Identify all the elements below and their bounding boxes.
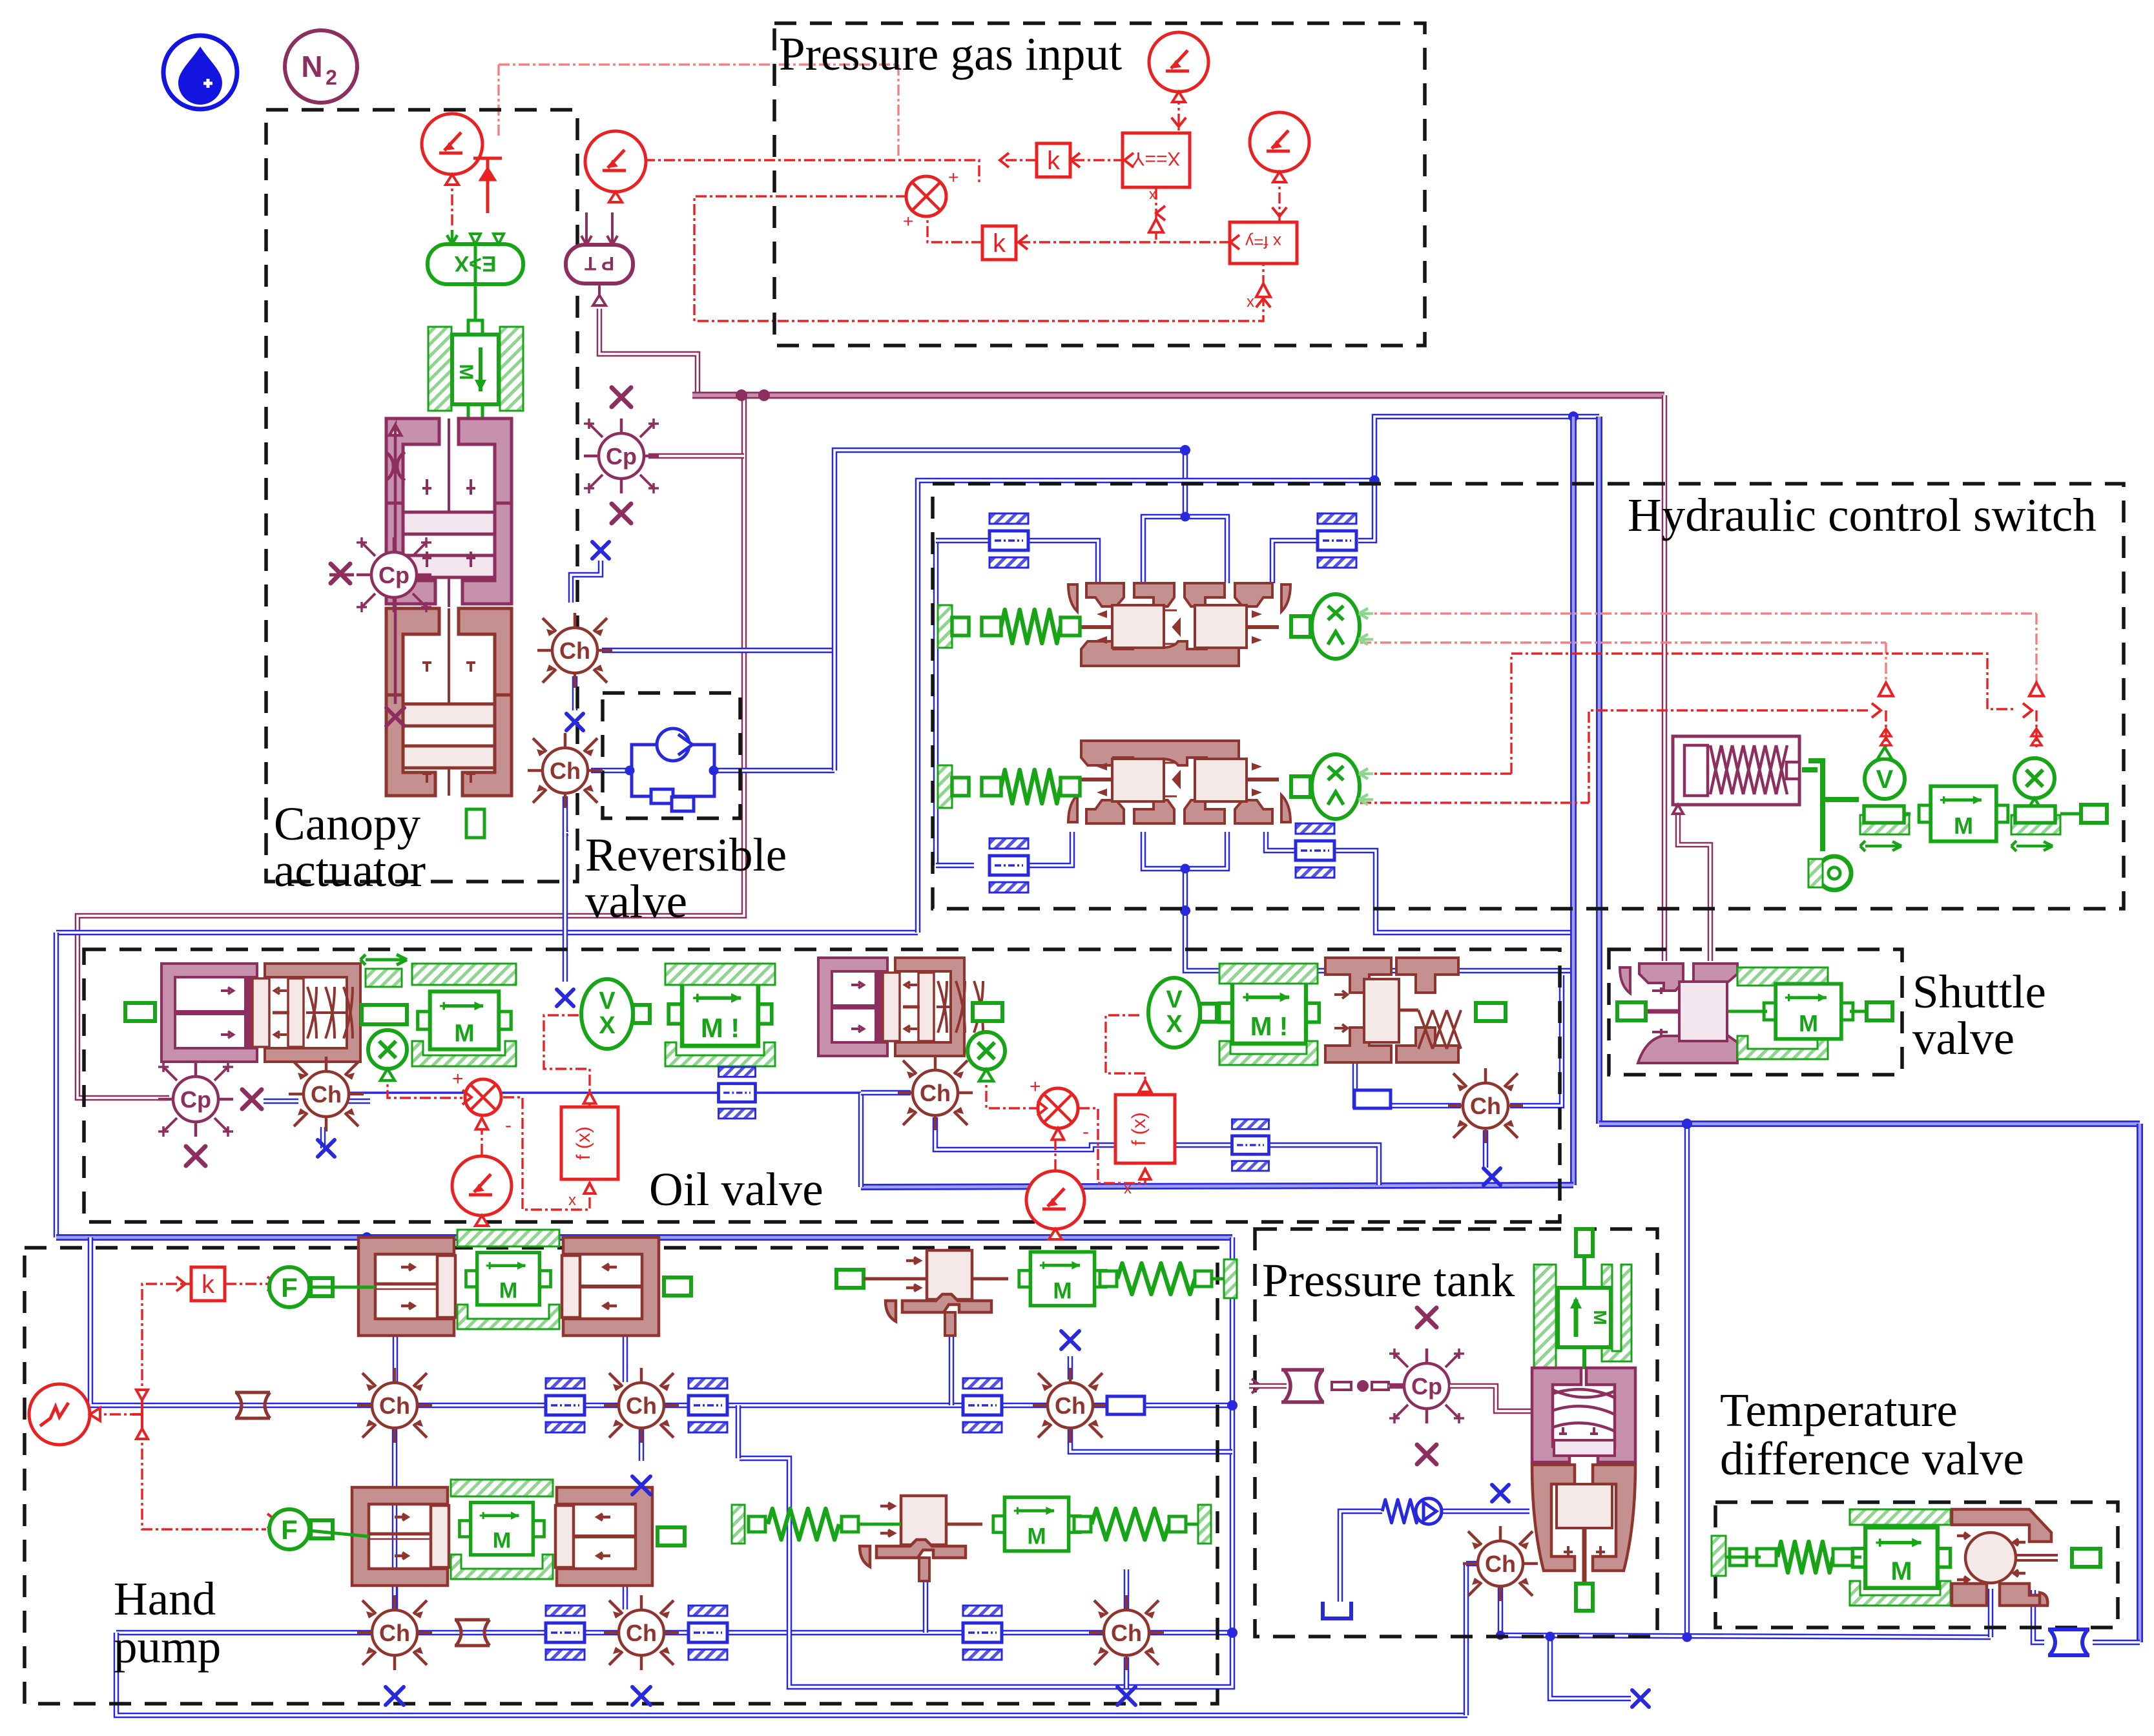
svg-text:V: V [1166, 986, 1183, 1013]
pump row2 Ch node A [357, 1595, 432, 1670]
HCS orifice top-right [1318, 513, 1356, 568]
HCS inner-left loop [933, 541, 939, 865]
oil valve mass M2b [1219, 982, 1320, 1044]
canopy Cp node (left) [357, 537, 431, 612]
svg-text:valve: valve [1912, 1012, 2014, 1064]
pump2 left chamber drop [393, 1586, 399, 1609]
pump1 left chamber drop [393, 1336, 399, 1382]
link to HCS orifice L2 [936, 863, 974, 869]
M1 bottom guide [412, 1041, 516, 1066]
canopy Ch2 drop [563, 833, 568, 982]
function box to VX1 pilot [544, 1015, 590, 1106]
canopy Ch node (lower oil) [528, 733, 603, 808]
svg-text:Ch: Ch [1111, 1620, 1142, 1646]
temp valve center port drop [1988, 1589, 1994, 1637]
svg-text:x f=y: x f=y [1245, 232, 1281, 252]
temp valve right port to bowtie [2033, 1590, 2044, 1642]
temp valve bottom guide [1850, 1581, 1951, 1606]
relief valve 1 center drop [949, 1336, 955, 1405]
svg-text:V: V [599, 987, 616, 1015]
svg-text:-: - [1082, 1121, 1089, 1142]
bowtie to far right trunk [2093, 1640, 2140, 1646]
oil valve X transducer 1 [368, 1030, 407, 1080]
oil valve Ch node 3 [1448, 1068, 1523, 1143]
svg-text:Temperature: Temperature [1720, 1384, 1958, 1436]
signal from canopy k2 to mixer [644, 160, 979, 185]
canopy actuator cylinder (gas side) [386, 418, 512, 607]
oil valve pilot cylinder 1 [161, 964, 360, 1062]
svg-text:+: + [948, 167, 958, 187]
link to HCS orifice L1 [936, 538, 989, 544]
hand pump cylinder 2 [352, 1487, 652, 1586]
svg-text:Cp: Cp [378, 562, 409, 588]
HCS bottom fork to right trunk [1143, 832, 1573, 971]
HCS orifice R1 to spool 1 [1272, 541, 1318, 583]
row1 Ch2 down stub [639, 1429, 645, 1461]
relief Ch to riser [1070, 1429, 1232, 1452]
gas input constant k (top) [1149, 32, 1208, 102]
pilot relief valve 2 mass M [993, 1497, 1080, 1551]
green link [588, 1013, 620, 1016]
oil valve orifice (middle line) [1232, 1119, 1269, 1171]
svg-text:Ch: Ch [626, 1620, 657, 1646]
dashed box: Hydraulic control switch [933, 484, 2124, 909]
temp valve mass M [1852, 1527, 1950, 1588]
tank bottom collector line [1500, 1635, 1991, 1637]
svg-text:M: M [1053, 1278, 1072, 1303]
pneumatic bowtie restrictor tank [1281, 1370, 1324, 1402]
svg-text:-: - [505, 1115, 512, 1136]
svg-text:x: x [1149, 188, 1156, 204]
trunk along y1740 to far right [1599, 1121, 2140, 1127]
oil valve Ch1 right link [347, 1099, 370, 1104]
hand pump gain k [191, 1267, 225, 1301]
pump1 force transducer F [269, 1267, 333, 1307]
oil valve Cp node [158, 1062, 233, 1137]
pump row1 orifice B [689, 1378, 727, 1432]
return line right section [861, 1185, 1573, 1187]
pump row2 orifice A [546, 1606, 585, 1660]
canopy Cp node (gas) [584, 418, 659, 493]
canopy M block with guides [428, 327, 451, 411]
svg-text:Ch: Ch [379, 1392, 410, 1419]
k1 circle to mixer1 [481, 1117, 482, 1155]
oil valve Ch2 n-loop [858, 1093, 864, 1187]
ramp source output [90, 1413, 132, 1415]
temp valve top guide [1850, 1509, 1951, 1525]
svg-text:Pressure tank: Pressure tank [1262, 1254, 1515, 1307]
HCS position transducer X [2014, 758, 2055, 810]
tank Ch return drop [1464, 1564, 1469, 1715]
svg-text:X: X [1166, 1011, 1183, 1038]
HCS orifice L1 to spool 1 [1028, 541, 1098, 583]
temp valve rotary body [1952, 1509, 2058, 1606]
pump1 right chamber drop [623, 1336, 628, 1382]
link row1 Ch to row2 Ch [392, 1429, 398, 1609]
Cp to tank spring chamber [1450, 1386, 1532, 1411]
HCS orifice bottom-left [989, 838, 1028, 893]
svg-text:M: M [1891, 1557, 1912, 1586]
pneumatic bowtie restrictor row2 [455, 1620, 490, 1646]
relief 2 Ch bottom stub [1124, 1657, 1130, 1688]
svg-text:Cp: Cp [606, 443, 637, 470]
tank inlet pipe [1249, 1383, 1287, 1389]
svg-text:M: M [454, 1020, 475, 1048]
pilot relief valve 1 [882, 1250, 1008, 1336]
main pneumatic trunk (horizontal) [692, 392, 1664, 399]
hand pump row 2 hydraulic line [116, 1630, 1232, 1636]
pilot signal drop left [1885, 643, 1887, 685]
svg-text:Oil valve: Oil valve [649, 1163, 823, 1215]
canopy displacement probe [386, 425, 405, 704]
nitrogen gas icon N2 [285, 30, 357, 103]
svg-text:M: M [455, 364, 477, 380]
V circle feed [1885, 710, 1887, 750]
oil valve VX transducer 2 [1148, 978, 1217, 1048]
relief valve Ch node [1033, 1368, 1108, 1443]
dashed box: Temperature difference valve [1715, 1502, 2118, 1627]
dashed box: Pressure tank [1255, 1229, 1657, 1637]
oil valve Ch node 2 [898, 1055, 973, 1130]
hand pump row 1 hydraulic line [200, 1403, 1232, 1409]
HCS pilot1 lower signal line [1360, 641, 1886, 643]
pneumatic pipe from P/T sensor down to trunk [599, 309, 741, 395]
HCS pilot2 upper signal [1360, 772, 1511, 774]
pump2 force transducer F [269, 1509, 333, 1549]
tank check valve with spring [1382, 1498, 1442, 1524]
X circle feed [2035, 710, 2037, 750]
HCS orifice R2 to spool 2 [1266, 832, 1296, 851]
oil valve X2 signal to mixer2 [986, 1071, 1037, 1108]
pump return loop [740, 1237, 1232, 1687]
gas box signal drop [897, 65, 899, 159]
HCS lever [1802, 761, 1859, 890]
svg-text:Ch: Ch [1485, 1551, 1516, 1577]
OV3 bottom port to Ch3 [1355, 1062, 1461, 1106]
tank check valve suction line [1340, 1511, 1382, 1602]
HCS spool valve 2 [1068, 741, 1290, 823]
red T signal probe [473, 158, 502, 213]
signal k1 down to selector [451, 174, 453, 227]
svg-text:X: X [599, 1012, 616, 1039]
pneumatic pipe from HCS spring cylinder to shuttle valve [1678, 804, 1710, 961]
gas k circle to saturation block [1177, 94, 1179, 132]
oil valve orifice (line A) [719, 1067, 756, 1119]
collector branch to vent [1550, 1637, 1631, 1699]
pump row1 orifice A [546, 1378, 585, 1432]
oil valve Ch1 left link [264, 1099, 298, 1104]
svg-text:Hand: Hand [114, 1573, 216, 1625]
HCS orifice L2 to spool 2 [1028, 832, 1072, 865]
middle chamber line to return [1267, 1145, 1379, 1185]
svg-text:x: x [1124, 1180, 1132, 1197]
HCS orifice R2 exit to right trunk [1334, 851, 1573, 933]
signal riser to gain k [142, 1284, 190, 1400]
HCS top fork right [1185, 517, 1227, 583]
svg-text:Ch: Ch [1055, 1392, 1086, 1419]
tank spring chamber [1532, 1368, 1635, 1462]
HCS sensor platform left [1860, 815, 1909, 834]
right hydraulic trunk V1 [1570, 417, 1577, 1185]
canopy Ch1 top blue stub [571, 561, 601, 603]
svg-text:M: M [1799, 1010, 1818, 1037]
svg-text:Ch: Ch [559, 637, 590, 664]
reversible valve check branch [632, 728, 714, 811]
pilot relief valve 1 mass M [1019, 1252, 1106, 1305]
HCS top fork left [1143, 517, 1185, 583]
svg-text:F: F [281, 1272, 298, 1303]
oil valve chamber line A [349, 1091, 861, 1094]
displacement sled 1 [360, 955, 407, 965]
oil valve main spool cylinder [1325, 958, 1461, 1062]
svg-text:M !: M ! [701, 1013, 740, 1043]
relief line orifice [963, 1378, 1002, 1432]
svg-text:+: + [452, 1068, 464, 1090]
HCS velocity transducer V [1865, 747, 1905, 799]
function box 2 to VX2 pilot [1106, 1015, 1145, 1093]
HCS pilot2 lower signal [1360, 801, 1589, 803]
capsule P/T sensor [566, 212, 633, 305]
canopy Ch1 bottom stub [572, 676, 578, 710]
svg-text:Cp: Cp [1411, 1373, 1442, 1400]
pilot signal drop right [2035, 614, 2037, 685]
function to gain 2 line [1019, 241, 1230, 243]
svg-text:+: + [1030, 1076, 1041, 1097]
hydraulic pipe from canopy Ch to HCS loop [602, 648, 834, 654]
dashed box: Reversible valve [603, 693, 740, 818]
oil valve Ch node 1 [289, 1057, 364, 1131]
pneumatic bowtie restrictor row1 [235, 1392, 270, 1418]
HCS pilot1 upper signal line [1360, 612, 2036, 614]
oil valve mass M1 [418, 991, 511, 1049]
svg-text:x: x [1247, 293, 1254, 311]
hand pump cylinder 1 mass M [466, 1252, 550, 1305]
trunk branch down to tank return [1684, 1124, 1690, 1637]
canopy gas constant k2 [585, 131, 646, 202]
svg-text:M: M [1590, 1310, 1610, 1325]
saturation x feedback [1155, 189, 1157, 242]
pressure tank Cp node [1389, 1348, 1464, 1423]
svg-text:difference valve: difference valve [1720, 1432, 2024, 1485]
canopy Ch2 to reversible valve [591, 768, 630, 774]
canopy Ch node (upper oil) [537, 613, 612, 688]
svg-text:+: + [903, 211, 913, 231]
signal branch node [132, 1390, 148, 1439]
gas k2 circle to function block [1278, 172, 1280, 222]
svg-text:Ch: Ch [1470, 1093, 1501, 1119]
dashed box: Hand pump [25, 1248, 1217, 1704]
saturation to gain link [1071, 159, 1124, 161]
oil valve constant k1 [452, 1156, 512, 1226]
left hydraulic riser to return trunk [54, 933, 59, 1237]
svg-text:pump: pump [114, 1620, 221, 1673]
canopy gas constant k1 [422, 114, 482, 185]
oil valve summing junction 2 [1038, 1088, 1078, 1128]
svg-text:M: M [493, 1529, 512, 1553]
oil valve constant k2 [1026, 1171, 1084, 1239]
svg-text:M: M [499, 1279, 518, 1303]
bottom return trunk [116, 1633, 1467, 1715]
svg-text:Ch: Ch [379, 1620, 410, 1646]
mixer2 to function box 2 bottom [1079, 1108, 1145, 1183]
dashed box: Canopy actuator [266, 110, 577, 882]
svg-text:V: V [1876, 765, 1894, 794]
far right trunk down [2137, 1124, 2143, 1642]
pneumatic branch from canopy Cp node [648, 453, 744, 459]
oil valve Ch3 to right trunk [1510, 975, 1562, 1106]
HCS orifice top-left [989, 513, 1028, 568]
left riser to pump row1 [90, 1237, 200, 1405]
hand pump cylinder 2 mass M [459, 1502, 544, 1555]
main return line below oil valve [56, 1234, 1232, 1241]
oil valve Ch2 bottom line [935, 1117, 1234, 1150]
shuttle valve mass M [1764, 984, 1853, 1038]
svg-text:k: k [202, 1270, 215, 1299]
blue bowtie restrictor 1 [2048, 1629, 2089, 1655]
svg-text:actuator: actuator [274, 844, 426, 896]
tank inlet arrow [1252, 1379, 1261, 1393]
signal drop to pump2 F [142, 1429, 266, 1529]
relief valve 2 drop to Ch [1124, 1569, 1130, 1609]
reservoir symbol [1323, 1602, 1351, 1618]
gain block k upper [1037, 143, 1070, 177]
gain2 to mixer bottom [927, 218, 982, 242]
HCS spool1 return spring [938, 605, 952, 648]
HCS spool valve 1 [1068, 583, 1290, 666]
gas input constant k (right) [1250, 112, 1309, 182]
oil valve summing junction 1 [465, 1079, 501, 1115]
svg-text:Ch: Ch [626, 1392, 657, 1419]
tank Ch left link [1466, 1561, 1476, 1567]
pilot2 upper routed to X junction [1511, 654, 2015, 774]
svg-text:N: N [301, 50, 322, 83]
water drop source icon [163, 36, 237, 109]
canopy rod end [466, 809, 484, 838]
HCS outer loop left riser and top run [918, 480, 1374, 933]
svg-text:f (x): f (x) [573, 1126, 594, 1160]
svg-text:X==Y: X==Y [1132, 148, 1180, 169]
svg-text:M: M [1027, 1524, 1046, 1549]
M1 top guide [412, 964, 516, 985]
HCS mass block M [1919, 786, 2008, 841]
canopy Ch2 bottom stub [565, 796, 568, 833]
link return loop to row1 [736, 1405, 741, 1458]
relief valve 2 Ch node [1089, 1595, 1164, 1670]
svg-text:Cp: Cp [180, 1086, 211, 1113]
pneumatic trunk down-left to oil valve Cp [78, 395, 744, 1098]
svg-text:Hydraulic control switch: Hydraulic control switch [1628, 489, 2097, 541]
tank lower chamber [1532, 1465, 1635, 1584]
svg-text:M !: M ! [1250, 1011, 1288, 1041]
tank inlet pipe 2 [1389, 1383, 1403, 1389]
svg-text:2: 2 [326, 66, 337, 89]
tank Ch bottom drop [1498, 1587, 1504, 1635]
HCS spool1 pilot X-or [1291, 594, 1373, 659]
signal line top from canopy to gas box [499, 63, 898, 65]
hydraulic pipe from reversible valve to riser [717, 768, 834, 774]
svg-text:Canopy: Canopy [274, 798, 421, 850]
oil valve function box f(x) 2 [1115, 1095, 1175, 1163]
svg-text:valve: valve [585, 875, 687, 927]
check valve to tank port [1440, 1509, 1529, 1514]
saturation block x==y [1123, 133, 1190, 204]
relief valve 1 drop to Ch [1068, 1356, 1073, 1379]
canopy actuator cylinder (oil side) [386, 608, 512, 796]
svg-text:k: k [993, 229, 1006, 258]
oil valve function box f(x) 1 [561, 1107, 618, 1179]
pressure tank accumulator column [1534, 1265, 1556, 1369]
dashed box: Shuttle valve [1609, 949, 1902, 1075]
svg-text:f (x): f (x) [1128, 1112, 1150, 1146]
HCS spool2 return spring [938, 765, 952, 808]
mixer1 to function box bottom [503, 1097, 590, 1210]
gain k1 output [1000, 159, 1037, 161]
oil valve pilot cylinder 2 [818, 958, 983, 1056]
pilot relief valve 2 [856, 1496, 982, 1581]
gas input summing junction [906, 176, 946, 216]
selector capsule E>X [428, 230, 523, 284]
pump row1 Ch node B [604, 1368, 679, 1443]
function block x!=y [1230, 222, 1297, 263]
HCS top run to right trunk V2 [1358, 417, 1599, 541]
right hydraulic trunk V2 [1596, 417, 1602, 1124]
gain k to F transducer [225, 1283, 271, 1285]
svg-text:M: M [1954, 812, 1973, 839]
oil valve Ch3 bottom stub [1483, 1130, 1489, 1168]
HCS bottom fork right leg [1185, 832, 1227, 869]
hydraulic line HCS loop to left edge [56, 930, 918, 936]
oil valve VX transducer 1 [581, 979, 650, 1049]
pressure tank Ch node [1463, 1526, 1538, 1601]
svg-text:Ch: Ch [920, 1080, 951, 1106]
oil valve X transducer 2 [968, 1032, 1005, 1081]
oil valve mass M1b [668, 982, 772, 1046]
dashed box: Pressure gas input [774, 23, 1425, 346]
HCS spring cylinder [1673, 736, 1799, 814]
dashed box: Oil valve [84, 949, 1560, 1222]
svg-text:F: F [281, 1514, 298, 1545]
svg-text:k: k [1047, 147, 1061, 175]
pneumatic trunk down to shuttle valve left port [1662, 395, 1668, 961]
gain block k lower [982, 226, 1016, 260]
n-loop to Ch2 left [861, 1090, 911, 1096]
k2 circle to mixer2 [1054, 1130, 1056, 1170]
svg-text:Ch: Ch [311, 1081, 342, 1108]
pump row2 Ch node B [604, 1595, 679, 1670]
HCS orifice bottom-right [1296, 823, 1334, 878]
relief valve 2 center drop [923, 1581, 929, 1633]
HCS spool2 pilot X-or [1291, 754, 1373, 819]
hydraulic riser to HCS top center [834, 450, 1185, 770]
svg-text:Pressure gas input: Pressure gas input [779, 28, 1122, 80]
oil valve Ch1 bottom stub [320, 1127, 326, 1148]
svg-text:P T: P T [585, 253, 614, 274]
mixer feedback loop [694, 196, 1263, 321]
svg-text:Reversible: Reversible [585, 829, 787, 881]
pump row2 orifice B [689, 1606, 727, 1660]
relief2 line orifice [963, 1606, 1002, 1660]
svg-text:Shuttle: Shuttle [1912, 966, 2046, 1018]
canopy signal riser [497, 65, 499, 137]
ramp signal source [29, 1384, 100, 1445]
svg-text:x: x [568, 1192, 576, 1209]
hand pump cylinder 1 [358, 1237, 659, 1336]
pilot2 lower routed to V junction [1589, 710, 1871, 803]
pump2 right chamber drop [623, 1586, 628, 1609]
pump row1 Ch node A [357, 1368, 432, 1443]
oil valve X1 signal to mixer1 [388, 1070, 462, 1098]
shuttle valve body [1620, 964, 1737, 1063]
